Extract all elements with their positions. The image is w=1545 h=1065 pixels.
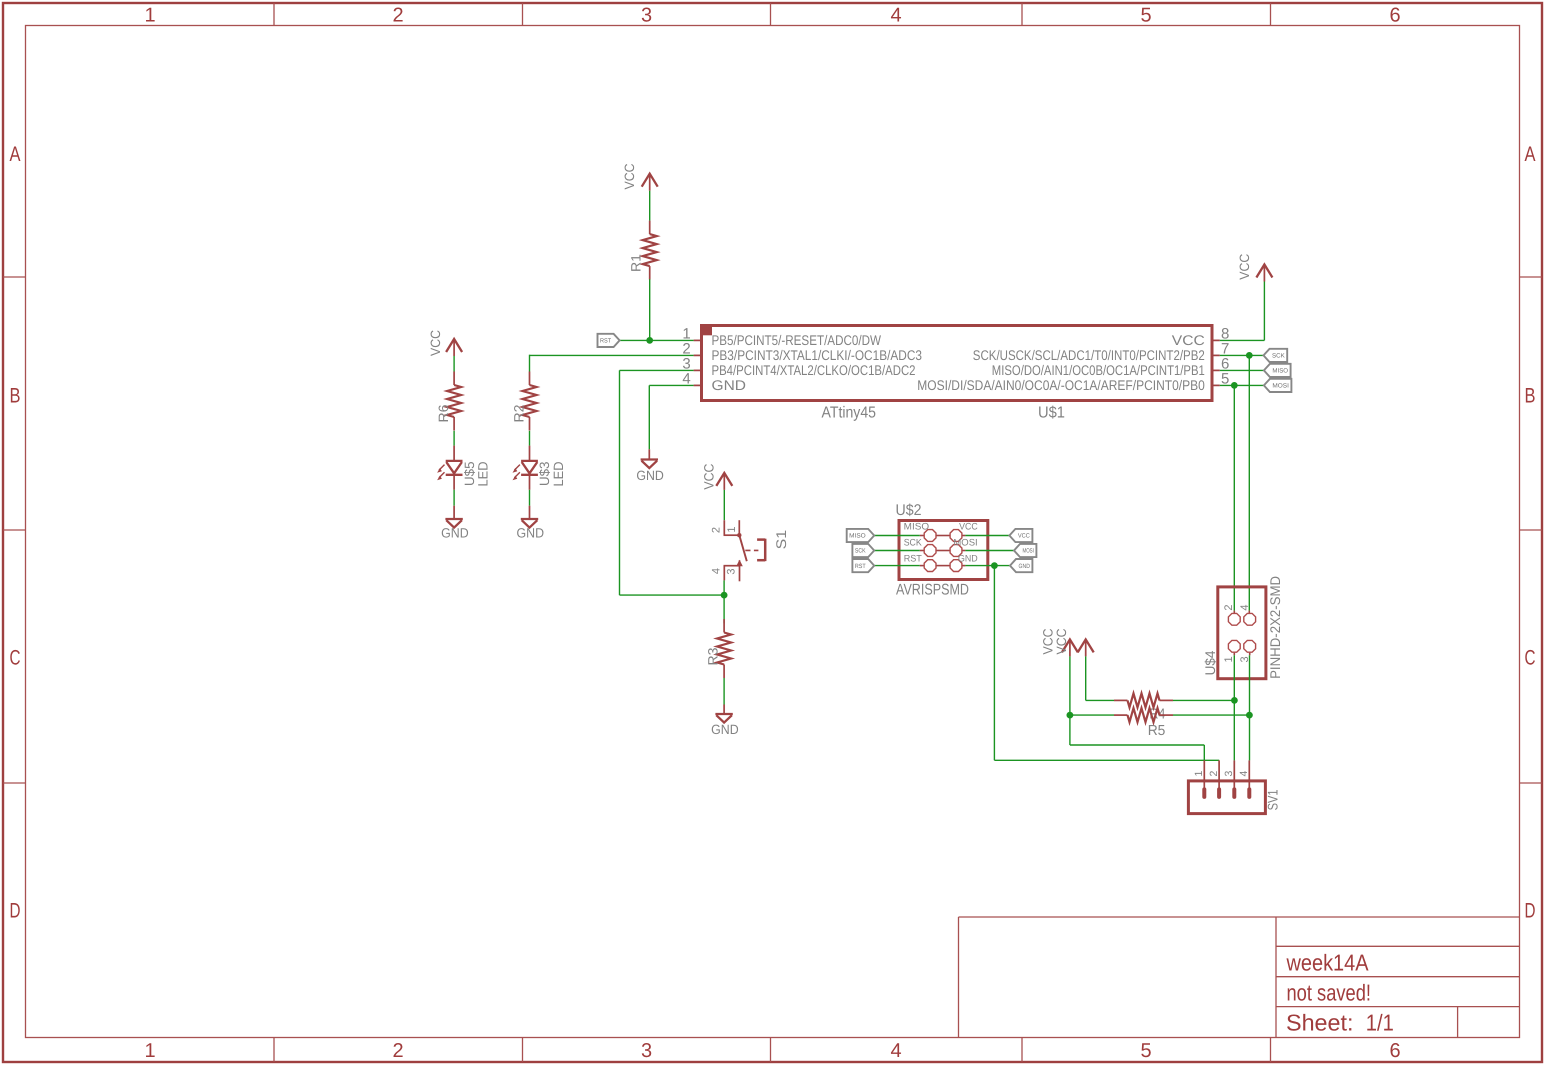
svg-text:PB5/PCINT5/-RESET/ADC0/DW: PB5/PCINT5/-RESET/ADC0/DW [712,332,882,348]
svg-text:PB3/PCINT3/XTAL1/CLKI/-OC1B/AD: PB3/PCINT3/XTAL1/CLKI/-OC1B/ADC3 [712,347,923,363]
svg-text:6: 6 [1389,1040,1400,1062]
svg-text:D: D [1525,900,1536,923]
svg-text:VCC: VCC [1237,253,1252,279]
svg-text:2: 2 [392,5,403,27]
svg-text:VCC: VCC [1172,332,1205,348]
svg-text:3: 3 [1223,771,1235,777]
U$4 pad bottom stubs [1233,653,1235,656]
svg-text:2: 2 [711,527,723,533]
svg-text:3: 3 [641,1040,652,1062]
svg-text:RST: RST [904,554,922,565]
connector U$2 box [899,521,988,580]
svg-text:4: 4 [1238,771,1250,777]
wire S1 to junction [723,580,725,595]
wire R1 to IC pin 1 node [649,279,651,340]
frame left band row separators [3,276,26,278]
resistor R4 [1114,699,1128,701]
wire junction to R3 [723,595,725,623]
svg-text:VCC: VCC [702,463,717,489]
svg-text:MOSI: MOSI [1023,548,1035,555]
wire VCC to R6 [453,356,455,372]
svg-text:S1: S1 [773,530,789,550]
svg-text:MISO: MISO [849,533,866,540]
svg-text:GND: GND [712,377,747,393]
wire VCC net to SV1 pin 1 [1069,715,1071,745]
svg-text:VCC: VCC [622,163,637,189]
switch S1 [723,520,725,535]
svg-text:R6: R6 [436,405,451,423]
svg-text:2: 2 [1223,604,1235,610]
resistor R2 [529,372,531,386]
net flag RST at IC pin 1 [598,334,620,347]
wire U$2 MOSI pad to flag [965,550,1014,552]
svg-text:LED: LED [551,461,566,486]
svg-text:LED: LED [475,461,490,486]
wire R5 left [1070,714,1114,716]
wire IC pin 6 to MISO flag [1220,369,1264,371]
U$4 pin pads [1228,613,1240,625]
net flag GND at U$2 [1010,559,1032,572]
frame top band column separators [273,3,275,26]
LED U$3 [529,446,531,461]
node junction at pin 7 wire [1246,352,1253,359]
ground symbol at IC pin 4 [641,458,658,460]
svg-text:5: 5 [1140,1040,1151,1062]
net flag VCC at U$2 [1009,529,1032,542]
wire IC pin 3 down-left [620,369,694,371]
svg-text:4: 4 [711,568,723,574]
resistor R1 [649,221,651,235]
power VCC symbol at IC pin 8 [1256,265,1272,278]
wire RST flag to IC pin 1 [620,339,694,341]
ground symbol below U$3 [521,518,538,520]
power VCC symbol above R1 [642,174,658,187]
svg-text:4: 4 [890,5,901,27]
svg-text:GND: GND [441,526,469,541]
svg-text:ATtiny45: ATtiny45 [822,404,877,421]
svg-text:GND: GND [636,468,664,483]
wire U$2 GND pad to flag [965,565,1010,567]
IC U$1 left pin stubs 1-4 [694,339,702,341]
svg-text:MISO: MISO [1272,368,1288,375]
svg-text:MISO: MISO [904,522,929,533]
svg-text:R3: R3 [706,648,721,666]
connector SV1 box [1188,781,1265,814]
svg-text:MOSI: MOSI [1272,383,1289,390]
svg-text:1/1: 1/1 [1366,1009,1394,1035]
IC U$1 ATtiny45 box [702,326,1213,401]
svg-text:SV1: SV1 [1264,789,1280,810]
svg-text:1: 1 [144,5,155,27]
wire LED U$5 to GND [453,490,455,506]
LED U$3 light emission arrows [514,465,520,471]
wire stub to GND symbol [453,506,455,519]
wire U$4 pad3 to SV1 pin 4 [1249,655,1251,760]
net flag MISO at U$2 [847,529,875,542]
svg-text:4: 4 [890,1040,901,1062]
svg-text:MOSI/DI/SDA/AIN0/OC0A/-OC1A/AR: MOSI/DI/SDA/AIN0/OC0A/-OC1A/AREF/PCINT0/… [917,377,1205,393]
net flag MOSI at IC pin 5 [1264,379,1292,392]
svg-text:3: 3 [726,568,738,574]
svg-text:MISO/DO/AIN1/OC0B/OC1A/PCINT1/: MISO/DO/AIN1/OC0B/OC1A/PCINT1/PB1 [992,362,1205,378]
title block outline [959,916,1520,918]
frame bottom band column separators [273,1038,275,1063]
wire VCC to R4 [1085,656,1087,700]
net flag MISO at IC pin 6 [1264,364,1291,377]
title block vertical divider [1275,917,1277,1038]
title block row lines [1276,945,1520,947]
svg-text:R1: R1 [629,254,644,272]
wire R5 to junction right [1173,714,1249,716]
svg-text:U$4: U$4 [1202,650,1218,675]
resistor R5 [1114,714,1128,716]
svg-text:1: 1 [1223,656,1235,662]
U$2 pad pin stubs [920,535,924,537]
wire IC pin 5 to MOSI flag [1220,384,1264,386]
wire stub GND pin4 [648,449,650,459]
wire IC pin 7 to SCK flag [1220,354,1264,356]
wire U$4 pad1 to SV1 pin 3 [1233,655,1235,760]
wire SCK flag to U$2 [874,550,920,552]
wire R6 to LED U$5 [453,431,455,446]
wire IC pin 8 to VCC [1220,339,1265,341]
svg-text:week14A: week14A [1286,949,1369,975]
wire R4 to junction right [1173,699,1234,701]
LED U$5 [453,446,455,461]
svg-text:GND: GND [517,526,545,541]
connector U$4 box [1218,587,1266,679]
svg-text:2: 2 [392,1040,403,1062]
net flag SCK at U$2 [852,544,874,557]
wire R2 to LED U$3 [529,431,531,446]
wire U$2 VCC pad to flag [965,535,1009,537]
svg-text:VCC: VCC [1018,533,1030,540]
power VCC symbol above R6 [446,339,462,352]
svg-text:4: 4 [1239,604,1251,610]
node junction at pin 5 wire [1231,382,1238,389]
node junction on U$2 GND wire [991,562,998,569]
svg-text:R2: R2 [512,405,527,423]
svg-text:PB4/PCINT4/XTAL2/CLKO/OC1B/ADC: PB4/PCINT4/XTAL2/CLKO/OC1B/ADC2 [712,362,916,378]
svg-text:D: D [10,900,21,923]
LED U$5 light emission arrows [439,465,445,471]
net flag SCK at IC pin 7 [1264,349,1288,362]
svg-text:MOSI: MOSI [953,538,977,549]
wire VCC to R5 junction [1069,656,1071,715]
svg-text:RST: RST [855,563,866,570]
wire IC pin 4 to GND [649,384,693,386]
svg-text:U$1: U$1 [1038,405,1065,422]
svg-text:A: A [10,143,21,166]
wire VCC to R1 [649,191,651,221]
wire stub to GND below R3 [723,705,725,715]
svg-text:C: C [1525,647,1536,670]
IC U$1 pin-1 corner mark [702,326,713,336]
svg-text:5: 5 [1140,5,1151,27]
net flag MOSI at U$2 [1014,544,1036,557]
svg-text:not saved!: not saved! [1287,980,1372,1006]
svg-text:2: 2 [1208,771,1220,777]
svg-text:PINHD-2X2-SMD: PINHD-2X2-SMD [1267,576,1283,679]
SV1 pin stubs and pads [1203,760,1205,788]
title block sheet cell divider [1457,1007,1459,1038]
wire pin 7 junction down to U$4 pad 4 [1248,355,1250,610]
svg-text:1: 1 [144,1040,155,1062]
resistor R6 [453,372,455,386]
svg-text:SCK: SCK [855,548,867,555]
svg-text:SCK: SCK [904,538,923,549]
power VCC symbol for R4 [1078,639,1094,652]
svg-text:3: 3 [641,5,652,27]
svg-text:1: 1 [726,526,738,532]
wire GND net to SV1 pin 2 [993,566,995,761]
svg-text:B: B [1525,385,1536,408]
svg-text:U$2: U$2 [896,502,922,519]
U$2 pin pads [924,530,936,542]
node junction R5 right [1246,712,1253,719]
svg-text:VCC: VCC [428,330,443,356]
ground symbol below U$5 [445,518,462,520]
svg-text:1: 1 [1193,771,1205,777]
wire IC pin 2 to R2 [530,354,694,356]
node junction R5 left [1067,712,1074,719]
node junction R4 right [1231,697,1238,704]
wire RST flag to U$2 [874,565,920,567]
svg-text:VCC: VCC [959,522,978,533]
svg-text:GND: GND [1019,563,1031,570]
svg-text:SCK/USCK/SCL/ADC1/T0/INT0/PCIN: SCK/USCK/SCL/ADC1/T0/INT0/PCINT2/PB2 [973,347,1205,363]
wire R3 to GND [723,678,725,705]
node junction S1 / R3 / pin3 net [721,592,728,599]
svg-text:A: A [1525,143,1536,166]
net flag RST at U$2 [852,559,874,572]
wire MISO flag to U$2 [874,535,920,537]
svg-text:R5: R5 [1148,723,1166,739]
IC U$1 right pin stubs 8-5 [1212,339,1220,341]
ground symbol below R3 [715,713,732,715]
svg-text:B: B [10,385,21,408]
svg-text:GND: GND [958,554,978,565]
svg-text:C: C [10,647,21,670]
svg-text:GND: GND [711,722,739,737]
svg-text:RST: RST [600,338,611,345]
power VCC symbol above S1 [716,473,732,486]
svg-text:Sheet:: Sheet: [1286,1009,1354,1035]
node junction at R1 and pin 1 [646,337,653,344]
svg-text:VCC: VCC [1054,628,1069,654]
resistor R3 [723,619,725,633]
svg-text:AVRISPSMD: AVRISPSMD [896,582,969,599]
power VCC symbol left of R5 [1062,639,1078,652]
svg-text:SCK: SCK [1272,353,1286,360]
svg-text:6: 6 [1389,5,1400,27]
frame right band row separators [1520,276,1543,278]
wire VCC to S1 [723,490,725,520]
wire pin 5 junction down to U$4 pad 2 [1233,385,1235,610]
wire LED U$3 to GND [529,490,531,506]
wire stub to GND symbol [529,506,531,519]
